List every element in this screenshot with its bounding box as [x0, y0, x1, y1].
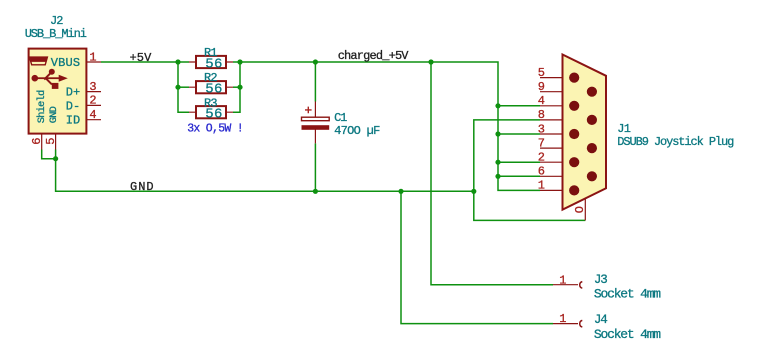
resistor R1 leads [189, 61, 233, 63]
svg-text:J1: J1 [617, 122, 630, 136]
DSUB pad pin 8 [587, 115, 597, 125]
junction C1 bottom on GND rail [313, 189, 318, 194]
junction R1 left [175, 59, 180, 64]
capacitor C1 plus sign [305, 107, 312, 114]
DSUB pin 1 stub [540, 189, 574, 191]
socket J4 arc [580, 320, 583, 327]
DSUB pad pin 2 [569, 157, 579, 167]
wire +5V main rail from J2 pin1 to DSUB drop [101, 61, 189, 63]
svg-text:USB_B_Mini: USB_B_Mini [25, 27, 87, 41]
pin 6 Shield stub J2 [41, 134, 43, 150]
junction R2 left [175, 85, 180, 90]
DSUB pin 2 stub [540, 161, 574, 163]
DSUB pin 9 stub [540, 91, 592, 93]
svg-text:J4: J4 [594, 313, 607, 327]
junction DSUB pin3 wire [495, 131, 500, 136]
socket J3 arc [580, 282, 583, 289]
svg-text:56: 56 [205, 107, 222, 123]
svg-text:D-: D- [66, 99, 80, 113]
wire R2 row [178, 86, 189, 88]
svg-text:4: 4 [538, 94, 545, 108]
svg-text:6: 6 [30, 138, 44, 145]
DSUB pad pin 5 [569, 73, 579, 83]
DSUB pin 6 stub [540, 175, 592, 177]
DSUB pad pin 1 [569, 185, 579, 195]
svg-text:J3: J3 [594, 273, 607, 287]
svg-text:DSUB9 Joystick Plug: DSUB9 Joystick Plug [617, 135, 734, 149]
svg-text:Socket 4mm: Socket 4mm [594, 327, 661, 342]
capacitor C1 bottom plate [302, 125, 330, 130]
pin 5 GND stub J2 [55, 134, 57, 150]
connector J2 body USB_B_Mini [29, 49, 87, 134]
svg-text:7: 7 [538, 136, 545, 150]
resistor R3 [196, 106, 226, 118]
wire to DSUB pin 4 [498, 105, 540, 107]
DSUB pad pin 4 [569, 101, 579, 111]
junction DSUB pin6 wire [495, 174, 500, 179]
svg-text:5: 5 [538, 66, 545, 80]
svg-text:47OO µF: 47OO µF [334, 124, 380, 138]
resistor R2 leads [189, 86, 233, 88]
DSUB pad pin 7 [587, 143, 597, 153]
capacitor C1 leads [314, 102, 316, 144]
svg-text:9: 9 [538, 80, 545, 94]
USB mini-B receptacle icon [29, 57, 47, 65]
resistor R3 leads [189, 111, 233, 113]
resistor R1 [196, 56, 226, 68]
svg-text:1: 1 [559, 312, 566, 326]
DSUB pad pin 9 [587, 87, 597, 97]
svg-text:3: 3 [538, 122, 545, 136]
svg-text:Shield: Shield [36, 90, 48, 123]
svg-text:56: 56 [205, 82, 222, 98]
svg-text:GND: GND [130, 180, 155, 194]
resistor R2 [196, 81, 226, 93]
wire J2 pin6 elbow [42, 150, 56, 159]
junction charged drop [428, 59, 433, 64]
DSUB pin 5 stub [540, 77, 574, 79]
junction J2 pin5/pin6 [53, 156, 58, 161]
junction DSUB pin2 wire [495, 160, 500, 165]
svg-text:3: 3 [89, 80, 96, 94]
svg-text:J2: J2 [50, 14, 63, 28]
wire C1 top drop [314, 62, 316, 102]
wire GND drop to J4 [401, 191, 553, 323]
svg-text:4: 4 [89, 108, 96, 122]
wire resistor bank right vertical [233, 62, 240, 112]
wire resistor bank left vertical [178, 62, 189, 112]
DSUB pin 7 stub [540, 147, 592, 149]
junction R2 right [237, 85, 242, 90]
wire GND to DSUB shield pin 0 [474, 191, 586, 220]
svg-text:2: 2 [538, 151, 545, 165]
svg-text:1: 1 [538, 179, 545, 193]
svg-text:2: 2 [89, 94, 96, 108]
svg-text:Socket 4mm: Socket 4mm [594, 287, 661, 302]
svg-text:56: 56 [205, 57, 222, 73]
junction GND rail end [471, 189, 476, 194]
svg-text:5: 5 [44, 138, 58, 145]
svg-text:1: 1 [559, 273, 566, 287]
pin 4 ID stub J2 [82, 119, 101, 121]
svg-text:VBUS: VBUS [51, 56, 80, 70]
pin 2 D- stub J2 [82, 104, 101, 106]
junction R1 right [237, 59, 242, 64]
DSUB shield pin 0 stub [584, 199, 586, 220]
DSUB pad pin 3 [569, 129, 579, 139]
wire GND up to DSUB pin 8 [474, 120, 540, 191]
DSUB pin 3 stub [540, 133, 574, 135]
junction J4 drop on GND rail [398, 189, 403, 194]
svg-text:8: 8 [538, 108, 545, 122]
DSUB pin 4 stub [540, 105, 574, 107]
wire GND rail [56, 150, 474, 192]
USB trident icon [32, 69, 68, 89]
junction DSUB pin4 wire [495, 103, 500, 108]
connector J1 body DSUB9 [563, 55, 607, 210]
pin 3 D+ stub J2 [82, 91, 101, 93]
svg-text:+5V: +5V [130, 51, 153, 65]
svg-text:O: O [573, 206, 587, 213]
junction C1 top [313, 59, 318, 64]
DSUB pad pin 6 [587, 171, 597, 181]
wire to DSUB pin 6 [498, 175, 540, 177]
capacitor C1 top plate [302, 117, 330, 121]
pin 1 VBUS stub J2 [82, 61, 101, 63]
svg-text:D+: D+ [66, 86, 80, 100]
J3 pin 1 stub [553, 284, 578, 286]
svg-text:3x O,5W !: 3x O,5W ! [187, 122, 243, 135]
wire C1 bottom to GND rail [314, 143, 316, 191]
wire to DSUB pin 2 [498, 161, 540, 163]
J4 pin 1 stub [553, 323, 578, 325]
svg-text:6: 6 [538, 165, 545, 179]
svg-text:charged_+5V: charged_+5V [338, 49, 410, 63]
svg-text:ID: ID [66, 114, 80, 128]
svg-text:GND: GND [48, 106, 60, 123]
wire charged_+5V drop to J3 [431, 62, 553, 285]
DSUB pin 8 stub [540, 119, 592, 121]
wire to DSUB pin 3 [498, 133, 540, 135]
svg-text:1: 1 [89, 50, 96, 64]
